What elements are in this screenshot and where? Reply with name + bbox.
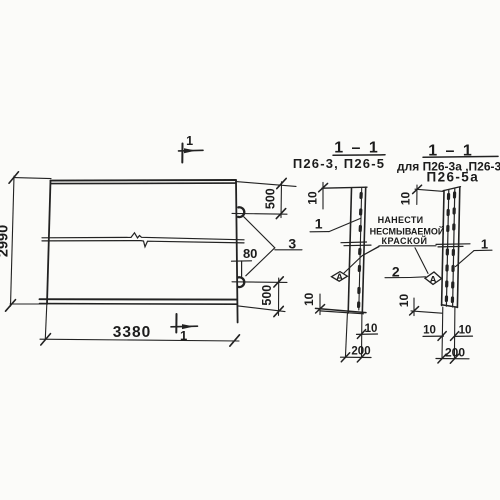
svg-text:10: 10 (365, 323, 378, 335)
section A dim 10 (thickness) (357, 333, 378, 335)
svg-text:200: 200 (445, 346, 465, 360)
section B panel faces (442, 187, 460, 307)
section B dim 200 (436, 354, 469, 363)
section A panel faces (348, 187, 366, 313)
section B header underline (423, 155, 498, 158)
lifting hook bottom (plan) (238, 277, 244, 287)
section B bottom edge (442, 305, 458, 307)
left edge (47, 181, 51, 304)
section B dim 10 left (423, 335, 444, 337)
svg-text:10: 10 (302, 292, 316, 306)
panel plan view outline (40, 180, 238, 323)
dimension 2990 (left) (6, 172, 52, 311)
section B paint mark diamond (425, 272, 442, 284)
dimension 500 (bottom right) (237, 277, 285, 317)
section B rebar dots left line (446, 195, 448, 301)
section B top edge (443, 187, 461, 191)
paint note leader to right diamond (415, 248, 428, 274)
svg-text:П26-5а: П26-5а (426, 170, 479, 185)
svg-text:500: 500 (260, 285, 274, 306)
callout 3 leaders (244, 217, 302, 276)
lifting hook top (plan) (238, 207, 244, 217)
svg-text:НЕСМЫВАЕМОЙ: НЕСМЫВАЕМОЙ (370, 226, 445, 237)
hook bottom axis line (232, 281, 287, 284)
dimension 3380 (bottom) (40, 305, 240, 347)
svg-text:3: 3 (288, 236, 296, 252)
section A diamond leader (344, 247, 379, 273)
section mark 1 (top) (179, 144, 204, 163)
section A header underline (333, 154, 385, 156)
section A rebar dots (359, 194, 362, 307)
bottom edge (double line) (40, 298, 238, 300)
svg-text:П26-3, П26-5: П26-3, П26-5 (293, 156, 385, 171)
hook top axis line (232, 212, 287, 215)
paint note underline (379, 245, 436, 247)
paint note text (370, 215, 445, 246)
svg-text:1: 1 (315, 216, 323, 232)
section A callout 1 (310, 218, 361, 231)
section B rebar dots right line (452, 193, 454, 302)
section mark 1 (bottom) (171, 314, 198, 333)
section B break lines (436, 243, 470, 246)
section B callout 2 (385, 276, 426, 279)
svg-text:2990: 2990 (0, 225, 12, 257)
dimension 80 (232, 261, 252, 277)
svg-text:А: А (430, 274, 437, 285)
paint note leader to left diamond (362, 246, 379, 256)
section A top edge / top dim line (322, 187, 367, 188)
section B lower extension lines (442, 307, 455, 358)
svg-text:10: 10 (306, 191, 320, 205)
svg-text:1: 1 (186, 134, 193, 148)
section A lower extension lines (345, 313, 362, 357)
section A paint mark diamond (332, 272, 348, 282)
middle joint double line with break symbol (42, 233, 244, 247)
svg-text:1 – 1: 1 – 1 (334, 140, 380, 157)
svg-text:3380: 3380 (113, 324, 151, 341)
svg-text:10: 10 (399, 192, 413, 206)
right edge (236, 180, 238, 322)
svg-text:80: 80 (243, 246, 257, 261)
section A dim 200 (341, 353, 372, 362)
svg-text:НАНЕСТИ: НАНЕСТИ (378, 215, 424, 225)
svg-text:2: 2 (392, 264, 400, 280)
section B dim 10 right (456, 335, 473, 337)
section B callout 1 (456, 250, 493, 266)
svg-text:10: 10 (423, 325, 436, 337)
svg-text:1: 1 (481, 237, 488, 252)
section A bottom edge (316, 308, 367, 312)
section A top dim 10 (319, 182, 328, 209)
svg-text:10: 10 (459, 325, 472, 337)
top edge (double line) (51, 179, 237, 182)
svg-text:500: 500 (264, 188, 278, 209)
svg-text:200: 200 (351, 346, 370, 358)
section B bottom-left dim 10 (410, 298, 442, 316)
svg-text:А: А (336, 272, 343, 283)
section B top dim 10 (413, 185, 444, 205)
section A break lines (341, 241, 367, 244)
section A bottom-left dim 10 (316, 294, 325, 315)
svg-text:КРАСКОЙ: КРАСКОЙ (382, 235, 428, 246)
dimension 500 (top right) (236, 178, 296, 218)
svg-text:10: 10 (397, 294, 411, 308)
